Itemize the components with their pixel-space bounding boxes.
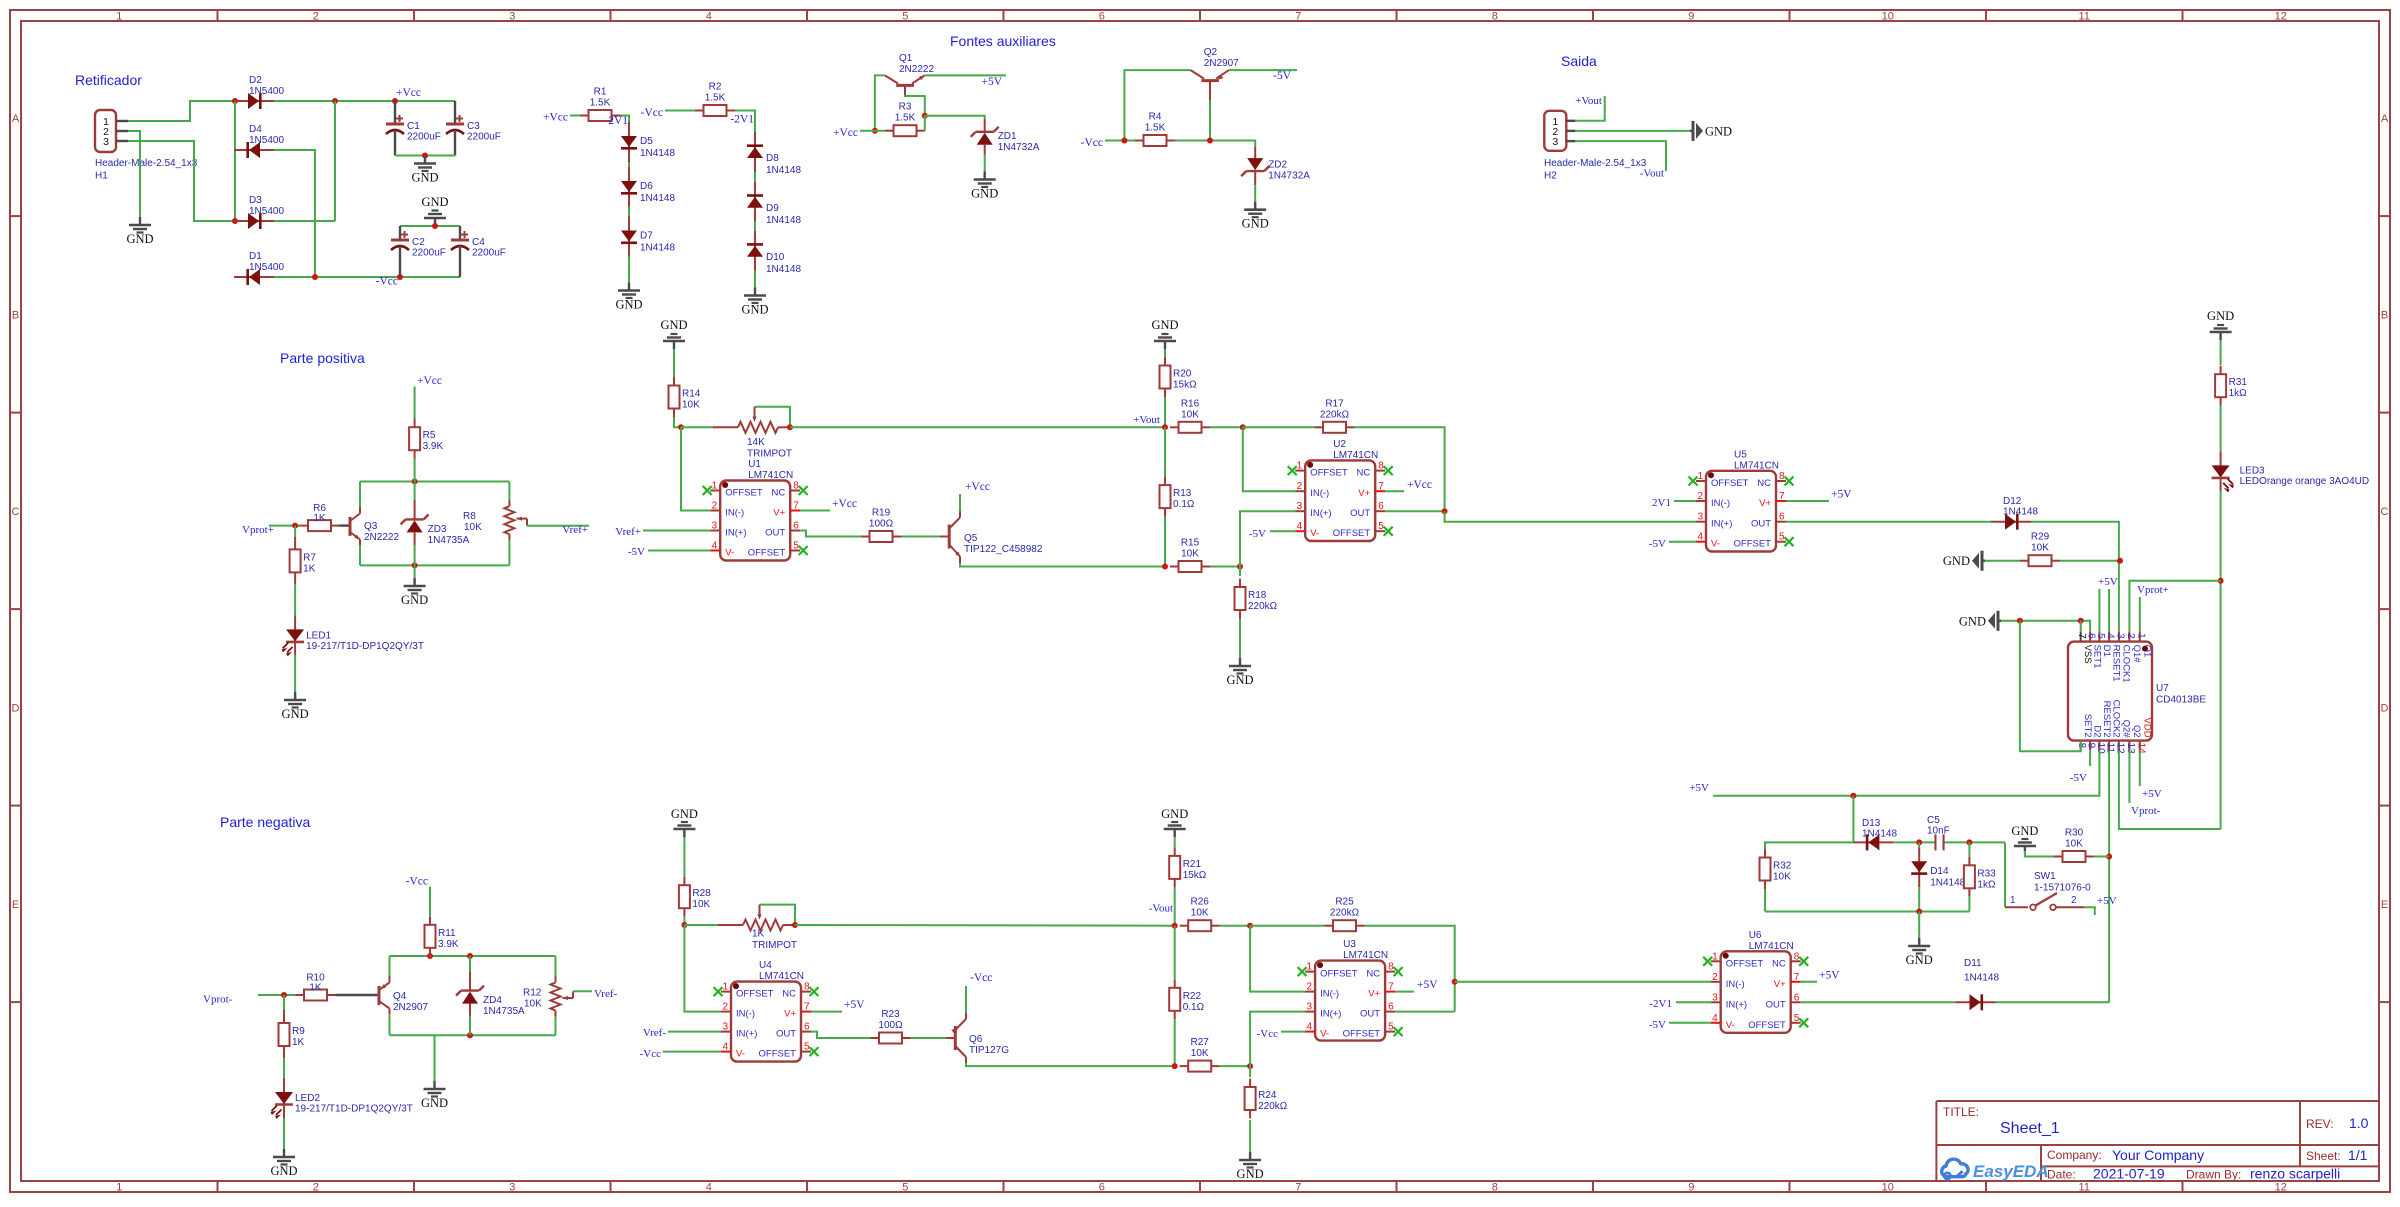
svg-text:D9: D9 bbox=[766, 203, 779, 214]
svg-text:2200uF: 2200uF bbox=[467, 132, 501, 143]
svg-text:Vprot-: Vprot- bbox=[2131, 805, 2161, 817]
svg-text:E: E bbox=[12, 899, 19, 911]
svg-text:R13: R13 bbox=[1173, 488, 1192, 499]
svg-text:Retificador: Retificador bbox=[75, 72, 142, 88]
svg-text:2: 2 bbox=[1697, 491, 1703, 502]
svg-text:8: 8 bbox=[1794, 951, 1800, 962]
svg-text:1N4148: 1N4148 bbox=[1964, 973, 1999, 984]
svg-text:IN(-): IN(-) bbox=[1726, 979, 1745, 990]
svg-text:7: 7 bbox=[2076, 633, 2087, 639]
svg-text:+5V: +5V bbox=[1831, 489, 1852, 501]
svg-text:1: 1 bbox=[2135, 633, 2146, 639]
svg-text:D6: D6 bbox=[640, 181, 653, 192]
svg-text:A: A bbox=[2381, 113, 2389, 125]
svg-text:1: 1 bbox=[722, 982, 728, 993]
svg-text:LM741CN: LM741CN bbox=[1749, 941, 1794, 952]
svg-text:IN(-): IN(-) bbox=[1711, 498, 1730, 509]
svg-text:6: 6 bbox=[1794, 992, 1800, 1003]
svg-text:2N2907: 2N2907 bbox=[1204, 58, 1239, 69]
svg-text:OUT: OUT bbox=[776, 1029, 796, 1040]
svg-text:1K: 1K bbox=[292, 1037, 305, 1048]
svg-text:2200uF: 2200uF bbox=[407, 132, 441, 143]
svg-text:D2: D2 bbox=[249, 75, 262, 86]
svg-text:-Vcc: -Vcc bbox=[640, 1048, 661, 1060]
svg-text:-Vcc: -Vcc bbox=[970, 972, 992, 984]
svg-text:2: 2 bbox=[1712, 972, 1718, 983]
svg-text:TRIMPOT: TRIMPOT bbox=[747, 448, 792, 459]
svg-text:U1: U1 bbox=[748, 459, 761, 470]
svg-text:OUT: OUT bbox=[1751, 519, 1771, 530]
svg-text:R24: R24 bbox=[1258, 1090, 1277, 1101]
svg-text:NC: NC bbox=[1757, 478, 1771, 489]
svg-text:OFFSET: OFFSET bbox=[1734, 539, 1772, 550]
svg-text:U4: U4 bbox=[759, 960, 772, 971]
svg-text:Parte positiva: Parte positiva bbox=[280, 350, 365, 366]
svg-text:Q6: Q6 bbox=[969, 1034, 983, 1045]
svg-text:R27: R27 bbox=[1191, 1037, 1210, 1048]
svg-text:10: 10 bbox=[1882, 1182, 1894, 1194]
svg-text:Fontes auxiliares: Fontes auxiliares bbox=[950, 33, 1056, 49]
svg-text:1N5400: 1N5400 bbox=[249, 262, 284, 273]
svg-text:LM741CN: LM741CN bbox=[759, 971, 804, 982]
svg-text:IN(-): IN(-) bbox=[725, 508, 744, 519]
svg-text:R33: R33 bbox=[1977, 868, 1996, 879]
svg-text:5: 5 bbox=[1779, 532, 1785, 543]
svg-text:10K: 10K bbox=[524, 999, 542, 1010]
svg-text:11: 11 bbox=[2079, 1182, 2090, 1194]
svg-text:3: 3 bbox=[1712, 992, 1718, 1003]
svg-text:IN(-): IN(-) bbox=[1310, 488, 1329, 499]
svg-text:OUT: OUT bbox=[1350, 508, 1370, 519]
svg-text:OFFSET: OFFSET bbox=[1748, 1020, 1786, 1031]
svg-text:2V1: 2V1 bbox=[608, 115, 628, 127]
svg-text:GND: GND bbox=[1906, 953, 1933, 967]
svg-text:1N4148: 1N4148 bbox=[1862, 829, 1897, 840]
svg-text:Vref-: Vref- bbox=[643, 1027, 666, 1039]
svg-text:OFFSET: OFFSET bbox=[736, 989, 774, 1000]
svg-text:10: 10 bbox=[1882, 11, 1894, 23]
svg-text:Q1: Q1 bbox=[899, 53, 913, 64]
svg-text:E: E bbox=[2381, 899, 2388, 911]
svg-text:2N2907: 2N2907 bbox=[393, 1002, 428, 1013]
svg-text:C: C bbox=[12, 506, 20, 518]
svg-text:1: 1 bbox=[116, 11, 122, 23]
svg-text:1N4148: 1N4148 bbox=[766, 215, 801, 226]
svg-text:2V1: 2V1 bbox=[1652, 497, 1671, 509]
svg-text:+5V: +5V bbox=[2142, 788, 2162, 800]
svg-text:R1: R1 bbox=[594, 87, 607, 98]
svg-text:IN(+): IN(+) bbox=[1711, 519, 1732, 530]
svg-text:-Vout: -Vout bbox=[1149, 903, 1173, 915]
svg-text:ZD1: ZD1 bbox=[998, 131, 1017, 142]
svg-text:3: 3 bbox=[1297, 501, 1303, 512]
svg-text:Sheet_1: Sheet_1 bbox=[2000, 1120, 2060, 1137]
svg-text:220kΩ: 220kΩ bbox=[1320, 409, 1350, 420]
svg-text:LED3: LED3 bbox=[2240, 465, 2265, 476]
svg-text:OUT: OUT bbox=[765, 528, 785, 539]
svg-text:LED1: LED1 bbox=[306, 630, 331, 641]
svg-text:OUT: OUT bbox=[1360, 1009, 1380, 1020]
svg-text:LM741CN: LM741CN bbox=[748, 470, 793, 481]
svg-text:Company:: Company: bbox=[2047, 1148, 2102, 1162]
svg-text:1: 1 bbox=[1712, 951, 1718, 962]
svg-text:6: 6 bbox=[1099, 1182, 1105, 1194]
svg-text:3: 3 bbox=[509, 11, 515, 23]
svg-text:LEDOrange orange 3AO4UD: LEDOrange orange 3AO4UD bbox=[2240, 476, 2370, 487]
svg-text:4: 4 bbox=[1712, 1013, 1718, 1024]
svg-text:1K: 1K bbox=[303, 563, 316, 574]
svg-text:-2V1: -2V1 bbox=[730, 114, 754, 126]
svg-text:1.5K: 1.5K bbox=[1145, 123, 1166, 134]
svg-text:1N5400: 1N5400 bbox=[249, 135, 284, 146]
svg-text:4: 4 bbox=[706, 11, 712, 23]
svg-text:7: 7 bbox=[804, 1002, 810, 1013]
svg-text:100Ω: 100Ω bbox=[869, 519, 894, 530]
svg-text:VDD: VDD bbox=[2141, 718, 2152, 738]
svg-text:1N4148: 1N4148 bbox=[640, 148, 675, 159]
svg-text:4: 4 bbox=[722, 1042, 728, 1053]
svg-text:Drawn By:: Drawn By: bbox=[2186, 1168, 2241, 1182]
svg-text:R2: R2 bbox=[709, 82, 722, 93]
svg-text:GND: GND bbox=[671, 807, 698, 821]
svg-text:Q2#: Q2# bbox=[2120, 720, 2131, 739]
svg-text:D8: D8 bbox=[766, 153, 779, 164]
svg-text:+Vout: +Vout bbox=[1133, 414, 1160, 426]
svg-text:-5V: -5V bbox=[1273, 70, 1292, 82]
svg-text:10K: 10K bbox=[682, 400, 700, 411]
svg-text:V-: V- bbox=[1310, 528, 1319, 539]
svg-text:10K: 10K bbox=[2031, 543, 2049, 554]
svg-text:OFFSET: OFFSET bbox=[725, 488, 763, 499]
svg-text:1N4732A: 1N4732A bbox=[1268, 171, 1310, 182]
svg-text:V+: V+ bbox=[784, 1009, 796, 1020]
svg-text:+Vcc: +Vcc bbox=[965, 481, 990, 493]
svg-text:2: 2 bbox=[2125, 633, 2136, 639]
svg-text:Vref+: Vref+ bbox=[615, 526, 641, 538]
svg-text:1: 1 bbox=[1697, 471, 1703, 482]
svg-text:U6: U6 bbox=[1749, 930, 1762, 941]
svg-text:2: 2 bbox=[722, 1002, 728, 1013]
svg-text:IN(+): IN(+) bbox=[725, 528, 746, 539]
svg-text:6: 6 bbox=[804, 1022, 810, 1033]
svg-text:GND: GND bbox=[1161, 807, 1188, 821]
svg-text:C: C bbox=[2381, 506, 2389, 518]
svg-text:5: 5 bbox=[804, 1042, 810, 1053]
svg-text:Q1#: Q1# bbox=[2131, 645, 2142, 664]
svg-text:8: 8 bbox=[1388, 962, 1394, 973]
svg-text:4: 4 bbox=[1697, 532, 1703, 543]
svg-text:1N4735A: 1N4735A bbox=[483, 1006, 525, 1017]
svg-text:5: 5 bbox=[902, 11, 908, 23]
svg-text:Vprot-: Vprot- bbox=[203, 994, 233, 1006]
svg-text:12: 12 bbox=[2275, 11, 2287, 23]
svg-text:8: 8 bbox=[804, 982, 810, 993]
svg-text:TRIMPOT: TRIMPOT bbox=[752, 940, 797, 951]
svg-text:R17: R17 bbox=[1325, 398, 1344, 409]
svg-text:1kΩ: 1kΩ bbox=[2229, 388, 2248, 399]
svg-text:Header-Male-2.54_1x3: Header-Male-2.54_1x3 bbox=[1544, 158, 1647, 169]
svg-text:GND: GND bbox=[2011, 824, 2038, 838]
svg-text:Q5: Q5 bbox=[964, 533, 978, 544]
svg-text:R26: R26 bbox=[1191, 897, 1210, 908]
svg-text:GND: GND bbox=[2207, 309, 2234, 323]
svg-text:10K: 10K bbox=[1773, 872, 1791, 883]
svg-text:+Vcc: +Vcc bbox=[832, 498, 857, 510]
svg-text:1N5400: 1N5400 bbox=[249, 206, 284, 217]
svg-text:7: 7 bbox=[1295, 11, 1301, 23]
svg-text:R4: R4 bbox=[1149, 112, 1162, 123]
svg-text:NC: NC bbox=[771, 488, 785, 499]
svg-text:+5V: +5V bbox=[1417, 979, 1438, 991]
svg-text:REV:: REV: bbox=[2306, 1117, 2334, 1131]
svg-text:R18: R18 bbox=[1248, 590, 1267, 601]
svg-text:R9: R9 bbox=[292, 1026, 305, 1037]
svg-text:A: A bbox=[12, 113, 20, 125]
svg-text:GND: GND bbox=[1226, 673, 1253, 687]
svg-text:NC: NC bbox=[1356, 468, 1370, 479]
svg-text:R32: R32 bbox=[1773, 861, 1792, 872]
svg-text:R22: R22 bbox=[1183, 991, 1202, 1002]
svg-text:7: 7 bbox=[1794, 972, 1800, 983]
svg-text:RESET2: RESET2 bbox=[2101, 701, 2112, 738]
svg-text:1-1571076-0: 1-1571076-0 bbox=[2034, 883, 2091, 894]
svg-text:OFFSET: OFFSET bbox=[1333, 528, 1371, 539]
svg-text:1.0: 1.0 bbox=[2349, 1115, 2369, 1131]
svg-text:5: 5 bbox=[1388, 1022, 1394, 1033]
svg-text:2N2222: 2N2222 bbox=[899, 64, 934, 75]
svg-text:ZD2: ZD2 bbox=[1268, 160, 1287, 171]
svg-text:Parte negativa: Parte negativa bbox=[220, 814, 310, 830]
svg-text:1N4148: 1N4148 bbox=[766, 264, 801, 275]
svg-text:OFFSET: OFFSET bbox=[1310, 468, 1348, 479]
svg-text:GND: GND bbox=[421, 195, 448, 209]
svg-text:V+: V+ bbox=[1774, 979, 1786, 990]
svg-text:2: 2 bbox=[313, 11, 319, 23]
svg-text:R11: R11 bbox=[438, 928, 456, 939]
svg-text:-Vout: -Vout bbox=[1640, 168, 1664, 180]
svg-text:9: 9 bbox=[1688, 11, 1694, 23]
svg-text:-5V: -5V bbox=[1649, 538, 1666, 550]
svg-text:10K: 10K bbox=[1181, 549, 1199, 560]
svg-text:CLOCK2: CLOCK2 bbox=[2111, 700, 2122, 738]
svg-text:CLOCK1: CLOCK1 bbox=[2120, 645, 2131, 683]
svg-text:R29: R29 bbox=[2031, 532, 2050, 543]
svg-text:1K: 1K bbox=[309, 983, 322, 994]
svg-text:10K: 10K bbox=[1191, 908, 1209, 919]
svg-text:10K: 10K bbox=[1181, 409, 1199, 420]
svg-text:-5V: -5V bbox=[1649, 1019, 1666, 1031]
svg-text:V-: V- bbox=[725, 548, 734, 559]
svg-text:1K: 1K bbox=[752, 929, 765, 940]
svg-text:D7: D7 bbox=[640, 231, 653, 242]
svg-text:NC: NC bbox=[782, 989, 796, 1000]
svg-text:3: 3 bbox=[1697, 512, 1703, 523]
svg-text:-Vcc: -Vcc bbox=[406, 876, 428, 888]
svg-text:8: 8 bbox=[1492, 11, 1498, 23]
svg-text:D12: D12 bbox=[2003, 496, 2022, 507]
svg-text:1: 1 bbox=[1297, 461, 1303, 472]
svg-text:19-217/T1D-DP1Q2QY/3T: 19-217/T1D-DP1Q2QY/3T bbox=[306, 641, 424, 652]
svg-text:U3: U3 bbox=[1343, 939, 1356, 950]
svg-text:V+: V+ bbox=[1368, 989, 1380, 1000]
svg-text:Q4: Q4 bbox=[393, 991, 407, 1002]
svg-text:R28: R28 bbox=[692, 888, 711, 899]
svg-text:IN(+): IN(+) bbox=[1320, 1009, 1341, 1020]
svg-text:R12: R12 bbox=[523, 988, 542, 999]
svg-text:LED2: LED2 bbox=[295, 1093, 320, 1104]
svg-text:5: 5 bbox=[1378, 521, 1384, 532]
svg-text:3.9K: 3.9K bbox=[438, 939, 459, 950]
svg-text:7: 7 bbox=[1295, 1182, 1301, 1194]
svg-text:7: 7 bbox=[793, 501, 799, 512]
svg-text:1.5K: 1.5K bbox=[590, 98, 611, 109]
svg-text:Date:: Date: bbox=[2047, 1168, 2076, 1182]
svg-text:-Vcc: -Vcc bbox=[1081, 137, 1103, 149]
svg-text:V+: V+ bbox=[773, 508, 785, 519]
svg-text:1: 1 bbox=[712, 481, 718, 492]
svg-text:TIP122_C458982: TIP122_C458982 bbox=[964, 544, 1043, 555]
svg-text:LM741CN: LM741CN bbox=[1343, 950, 1388, 961]
svg-text:GND: GND bbox=[421, 1096, 448, 1110]
svg-text:VSS: VSS bbox=[2082, 645, 2093, 664]
svg-text:U2: U2 bbox=[1333, 439, 1346, 450]
svg-text:OFFSET: OFFSET bbox=[759, 1049, 797, 1060]
svg-text:2200uF: 2200uF bbox=[412, 248, 446, 259]
svg-text:5: 5 bbox=[2095, 633, 2106, 639]
svg-text:0.1Ω: 0.1Ω bbox=[1173, 499, 1195, 510]
svg-text:R30: R30 bbox=[2065, 828, 2084, 839]
svg-text:-Vcc: -Vcc bbox=[376, 276, 398, 288]
svg-text:12: 12 bbox=[2275, 1182, 2287, 1194]
svg-text:6: 6 bbox=[793, 521, 799, 532]
svg-text:7: 7 bbox=[1779, 491, 1785, 502]
svg-text:GND: GND bbox=[1242, 217, 1269, 231]
svg-text:OFFSET: OFFSET bbox=[748, 548, 786, 559]
svg-text:4: 4 bbox=[712, 541, 718, 552]
svg-text:+5V: +5V bbox=[2097, 895, 2117, 907]
svg-text:2021-07-19: 2021-07-19 bbox=[2093, 1166, 2165, 1182]
svg-text:3.9K: 3.9K bbox=[423, 441, 444, 452]
svg-text:15kΩ: 15kΩ bbox=[1173, 380, 1197, 391]
svg-text:TITLE:: TITLE: bbox=[1943, 1105, 1979, 1119]
svg-text:C1: C1 bbox=[407, 121, 420, 132]
svg-text:ZD4: ZD4 bbox=[483, 995, 502, 1006]
svg-text:OUT: OUT bbox=[1766, 999, 1786, 1010]
svg-text:GND: GND bbox=[615, 298, 642, 312]
svg-text:GND: GND bbox=[971, 187, 998, 201]
svg-text:0.1Ω: 0.1Ω bbox=[1183, 1002, 1205, 1013]
svg-text:NC: NC bbox=[1772, 958, 1786, 969]
svg-text:Your Company: Your Company bbox=[2112, 1147, 2204, 1163]
svg-text:1K: 1K bbox=[313, 513, 326, 524]
svg-text:D1: D1 bbox=[2101, 645, 2112, 657]
svg-text:D3: D3 bbox=[249, 195, 262, 206]
svg-text:B: B bbox=[12, 309, 19, 321]
svg-text:5: 5 bbox=[1794, 1013, 1800, 1024]
svg-text:+5V: +5V bbox=[1689, 782, 1709, 794]
svg-text:OFFSET: OFFSET bbox=[1320, 969, 1358, 980]
svg-text:TIP127G: TIP127G bbox=[969, 1045, 1009, 1056]
svg-text:R19: R19 bbox=[872, 508, 891, 519]
svg-text:R15: R15 bbox=[1181, 538, 1200, 549]
svg-text:3: 3 bbox=[1552, 136, 1558, 148]
svg-text:6: 6 bbox=[1388, 1002, 1394, 1013]
svg-text:V-: V- bbox=[1726, 1020, 1735, 1031]
svg-text:220kΩ: 220kΩ bbox=[1258, 1101, 1288, 1112]
svg-text:GND: GND bbox=[411, 171, 438, 185]
svg-text:LM741CN: LM741CN bbox=[1333, 450, 1378, 461]
svg-text:D: D bbox=[12, 702, 20, 714]
svg-text:220kΩ: 220kΩ bbox=[1330, 908, 1360, 919]
svg-text:-5V: -5V bbox=[628, 546, 645, 558]
svg-text:B: B bbox=[2381, 309, 2388, 321]
svg-text:OFFSET: OFFSET bbox=[1726, 958, 1764, 969]
svg-text:U7: U7 bbox=[2156, 683, 2169, 694]
svg-text:6: 6 bbox=[1099, 11, 1105, 23]
svg-text:C5: C5 bbox=[1927, 815, 1940, 826]
svg-text:3: 3 bbox=[103, 136, 109, 148]
svg-text:8: 8 bbox=[1378, 461, 1384, 472]
svg-text:Q2: Q2 bbox=[2131, 725, 2142, 738]
svg-text:Saida: Saida bbox=[1561, 53, 1597, 69]
svg-text:V+: V+ bbox=[1759, 498, 1771, 509]
svg-text:+Vcc: +Vcc bbox=[396, 87, 421, 99]
svg-text:GND: GND bbox=[1959, 614, 1986, 628]
svg-text:1: 1 bbox=[1307, 962, 1313, 973]
svg-text:10K: 10K bbox=[464, 522, 482, 533]
svg-text:R7: R7 bbox=[303, 552, 316, 563]
svg-text:+5V: +5V bbox=[1819, 970, 1840, 982]
svg-text:U5: U5 bbox=[1734, 449, 1747, 460]
svg-text:R14: R14 bbox=[682, 389, 701, 400]
svg-text:+Vcc: +Vcc bbox=[833, 127, 858, 139]
svg-text:3: 3 bbox=[712, 521, 718, 532]
svg-text:+Vout: +Vout bbox=[1575, 95, 1602, 107]
svg-text:R21: R21 bbox=[1183, 859, 1202, 870]
svg-text:Q3: Q3 bbox=[364, 521, 378, 532]
svg-text:R16: R16 bbox=[1181, 398, 1200, 409]
svg-text:D5: D5 bbox=[640, 136, 653, 147]
svg-text:11: 11 bbox=[2079, 11, 2090, 23]
svg-text:LM741CN: LM741CN bbox=[1734, 460, 1779, 471]
svg-text:6: 6 bbox=[1779, 512, 1785, 523]
svg-text:D1: D1 bbox=[249, 251, 262, 262]
svg-text:9: 9 bbox=[1688, 1182, 1694, 1194]
svg-text:Vref-: Vref- bbox=[594, 988, 617, 1000]
svg-text:D4: D4 bbox=[249, 124, 262, 135]
svg-text:GND: GND bbox=[401, 593, 428, 607]
svg-text:V-: V- bbox=[1320, 1029, 1329, 1040]
svg-text:IN(+): IN(+) bbox=[1726, 999, 1747, 1010]
svg-text:Sheet:: Sheet: bbox=[2306, 1149, 2341, 1163]
svg-text:2: 2 bbox=[712, 501, 718, 512]
svg-text:8: 8 bbox=[1779, 471, 1785, 482]
svg-text:3: 3 bbox=[722, 1022, 728, 1033]
svg-text:-Vcc: -Vcc bbox=[1257, 1028, 1278, 1040]
svg-text:C3: C3 bbox=[467, 121, 480, 132]
svg-text:1N4148: 1N4148 bbox=[1930, 878, 1965, 889]
svg-text:C2: C2 bbox=[412, 237, 425, 248]
svg-text:H1: H1 bbox=[95, 171, 108, 182]
svg-text:R8: R8 bbox=[463, 511, 476, 522]
svg-text:1.5K: 1.5K bbox=[705, 93, 726, 104]
svg-text:CD4013BE: CD4013BE bbox=[2156, 695, 2206, 706]
svg-text:10K: 10K bbox=[2065, 839, 2083, 850]
svg-text:R31: R31 bbox=[2229, 377, 2248, 388]
svg-text:GND: GND bbox=[1237, 1167, 1264, 1181]
svg-text:2: 2 bbox=[313, 1182, 319, 1194]
svg-text:D10: D10 bbox=[766, 252, 785, 263]
